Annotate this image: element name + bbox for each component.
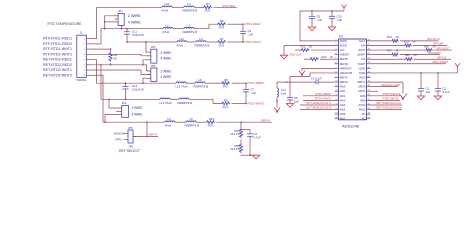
svg-text:47uH: 47uH [165, 124, 172, 128]
net label SPI-DOUT [437, 46, 451, 50]
net label RET-ANALOG-IN-P [371, 101, 403, 105]
svg-text:.1uF: .1uF [251, 91, 257, 95]
svg-text:7: 7 [84, 70, 86, 72]
wire row D RTD2-RED2 [97, 82, 247, 84]
svg-text:REF-P: REF-P [261, 118, 270, 122]
svg-text:R6: R6 [220, 19, 224, 23]
resistor R7 24.9 [217, 37, 226, 48]
svg-text:RET-ANALOG-IN-N: RET-ANALOG-IN-N [377, 106, 402, 110]
svg-text:ADC-CLK: ADC-CLK [290, 52, 302, 56]
svg-text:REF SELECT: REF SELECT [119, 149, 140, 153]
net label SPI-DRDY [428, 51, 441, 55]
svg-text:R14: R14 [387, 35, 392, 39]
svg-text:2K: 2K [396, 49, 399, 53]
svg-text:GPIO0: GPIO0 [358, 86, 366, 89]
resistor R6 24.9 [217, 19, 226, 30]
svg-text:FERRITE B: FERRITE B [195, 43, 210, 47]
op-amp U2 ADS1248 body [339, 35, 367, 129]
svg-text:2K: 2K [396, 35, 399, 39]
svg-text:2K: 2K [309, 45, 312, 49]
svg-text:AIN2: AIN2 [340, 95, 346, 98]
IC U2 pin stubs and pin names [335, 39, 371, 120]
net label RTD1-WHT2 at AIN2 [303, 97, 335, 101]
svg-text:REFP1: REFP1 [340, 77, 349, 80]
resistor R12 2K on CLK [295, 45, 335, 52]
svg-text:47uH: 47uH [163, 30, 170, 34]
wire J1 pin4 to JP2 pin2 [90, 54, 151, 55]
svg-text:xRESET: xRESET [340, 54, 350, 57]
svg-text:ANALOG: ANALOG [114, 132, 125, 136]
net label RTD2-RED2 at AIN8 [371, 92, 401, 96]
wire DVDD to VCC rail [300, 11, 335, 41]
svg-text:FERRITE B: FERRITE B [183, 9, 198, 13]
svg-text:NC: NC [362, 113, 366, 116]
svg-text:1uF: 1uF [294, 99, 299, 103]
wire J1 pin7 to JP3 pin2 [90, 70, 151, 74]
title RTD TEMPERATURE [48, 22, 83, 26]
ground REFN0 [299, 71, 305, 76]
svg-text:xDRDY: xDRDY [357, 54, 365, 57]
svg-text:DOUT: DOUT [359, 49, 366, 52]
svg-text:RTF-RTD1-WHT2: RTF-RTD1-WHT2 [43, 52, 72, 56]
power VCC arrow top [342, 5, 347, 11]
jumper JP4 2-wire/4-wire select [116, 101, 143, 117]
inductor L11 47uH [177, 37, 188, 48]
wire AVDD rail [371, 70, 458, 74]
jumper JP1 2-wire/4-wire select [114, 9, 142, 25]
resistor R14 2K on SCLK [371, 35, 439, 43]
svg-text:2 WIRE: 2 WIRE [161, 69, 173, 73]
svg-text:2K: 2K [330, 55, 333, 59]
svg-text:AIN3: AIN3 [340, 99, 346, 102]
svg-text:R13: R13 [322, 55, 327, 59]
svg-text:RTF-RTD1-WHT1: RTF-RTD1-WHT1 [43, 47, 72, 51]
net label RTD1-RED2 [245, 22, 262, 26]
svg-text:L3: L3 [188, 24, 192, 28]
svg-text:U2: U2 [339, 35, 343, 39]
net label RTF-RTD1-WHT1 [43, 47, 72, 51]
svg-text:VREFCOM: VREFCOM [340, 72, 353, 75]
net label ANALOG-GND [371, 83, 400, 87]
svg-text:SPI-DRDY: SPI-DRDY [428, 51, 441, 55]
svg-text:3: 3 [84, 49, 86, 51]
net label ADC-START [433, 60, 449, 64]
jumper JP2 2-wire/4-wire select [147, 45, 173, 63]
svg-text:47uH: 47uH [177, 43, 184, 47]
svg-text:REF-P: REF-P [149, 133, 158, 137]
svg-text:24.9: 24.9 [223, 85, 229, 89]
net label SPI-SCLK [427, 37, 440, 41]
resistor R9 24.9 [221, 98, 230, 109]
svg-text:AVSS: AVSS [359, 77, 366, 80]
ground ref divider [252, 155, 259, 159]
svg-text:24.9: 24.9 [205, 9, 211, 13]
capacitor C10 .1uF [329, 11, 342, 27]
svg-text:L5: L5 [200, 37, 204, 41]
resistor R10 24.9 [206, 117, 215, 128]
resistor R18 2K on xCS [371, 53, 452, 61]
svg-text:RTD1-WHT2: RTD1-WHT2 [315, 97, 332, 101]
svg-text:JP3: JP3 [151, 64, 156, 68]
ground L12 [274, 108, 280, 113]
svg-text:SPI-SCLK: SPI-SCLK [427, 37, 440, 41]
svg-text:DVDD: DVDD [340, 40, 347, 43]
wire J1 pin8 to row F [90, 75, 103, 122]
svg-text:START: START [358, 63, 366, 66]
svg-text:.1uF: .1uF [248, 33, 254, 37]
svg-text:0.1uF: 0.1uF [443, 90, 450, 94]
wire R5A to R5B [240, 140, 242, 144]
connector J1 TERMINAL [76, 30, 90, 81]
net label RET-RTD2-WHT2 [43, 73, 72, 77]
svg-text:RTD1-WHT2: RTD1-WHT2 [245, 40, 262, 44]
wire START [371, 63, 447, 65]
svg-text:1uH: 1uH [281, 92, 286, 96]
svg-text:RET-RTD2-RED1: RET-RTD2-RED1 [43, 58, 72, 62]
inductor L10 47uH [162, 2, 173, 12]
ferrite bead L3 [183, 24, 198, 34]
ground C1 [417, 96, 424, 100]
net label ADC-CLK [290, 52, 302, 56]
svg-text:R10: R10 [209, 117, 215, 121]
svg-text:R4: R4 [206, 2, 210, 6]
svg-text:24.3 1%: 24.3 1% [230, 133, 240, 136]
power VCC arrow right [455, 63, 460, 69]
svg-text:RTF-RTD1-RED1: RTF-RTD1-RED1 [43, 37, 72, 41]
capacitor C12 0.01uF-B [122, 82, 143, 100]
svg-text:REFP0: REFP0 [340, 58, 349, 61]
net label OUT-ANALOG-IN-P at AIN3 [300, 101, 335, 105]
ferrite bead L5 [195, 37, 210, 48]
resistor R5A 24.3 1% [230, 129, 242, 139]
wire REF divider riser [240, 121, 250, 129]
svg-text:TERMINAL: TERMINAL [76, 78, 87, 82]
svg-text:L2: L2 [166, 24, 170, 28]
svg-text:VREFOUT: VREFOUT [340, 67, 352, 70]
svg-text:RTF-RTD1-RED2: RTF-RTD1-RED2 [43, 42, 72, 46]
net label RTF-RTD1-RED2 [43, 42, 72, 46]
svg-text:J1: J1 [80, 30, 83, 34]
svg-text:AIN6: AIN6 [340, 113, 346, 116]
ground C10 [328, 27, 335, 31]
net label RTD2-WHT2 at AIN9 [371, 97, 401, 101]
inductor L14 47uH [160, 98, 172, 105]
svg-text:AIN10: AIN10 [359, 104, 366, 107]
svg-text:RET-RTD2-WHT1: RET-RTD2-WHT1 [43, 68, 72, 72]
ground C6 [286, 104, 293, 108]
ground DGND [280, 55, 287, 59]
svg-text:4: 4 [84, 54, 86, 56]
net label RTD2-WHT2 [248, 101, 265, 105]
net label RET-ANALOG-IN-N [371, 106, 403, 110]
svg-text:RTD2-RED2: RTD2-RED2 [383, 92, 399, 96]
net label RTD1-WHT2 [245, 40, 262, 44]
svg-text:RET-ANALOG-IN-P: RET-ANALOG-IN-P [377, 101, 402, 105]
svg-text:AIN9: AIN9 [360, 99, 366, 102]
net label RTD1-RED1 [223, 4, 236, 8]
wire DGND to ground [284, 45, 335, 55]
svg-text:4 WIRE: 4 WIRE [128, 20, 142, 24]
svg-text:24.9: 24.9 [219, 43, 225, 47]
ferrite bead L9 [185, 117, 200, 128]
inductor L8 47uH [165, 117, 176, 128]
svg-text:AIN11: AIN11 [359, 109, 366, 112]
resistor R16 2K on DOUT [371, 45, 453, 52]
wire J1 pin5 to row D [90, 60, 97, 84]
net label REF-P [261, 118, 270, 122]
net label RTD1-RED2 at AIN1 [303, 92, 335, 96]
svg-text:REFN1: REFN1 [340, 81, 349, 84]
svg-text:SPI-DOUT: SPI-DOUT [437, 46, 451, 50]
svg-text:47uH: 47uH [162, 9, 169, 13]
svg-text:R17: R17 [387, 49, 392, 53]
wire row A RTD1-RED1 [97, 6, 238, 8]
svg-text:L10: L10 [165, 2, 170, 6]
svg-text:CLKIO: CLKIO [358, 67, 365, 70]
net label SPI-DIN [433, 42, 443, 46]
svg-text:R8: R8 [224, 78, 228, 82]
svg-text:0.01uF-B: 0.01uF-B [132, 33, 144, 37]
svg-text:GPIO1: GPIO1 [358, 90, 366, 93]
inductor L13 47uH [176, 82, 188, 89]
svg-text:ADS1248: ADS1248 [342, 125, 359, 129]
ground C8 [308, 27, 315, 31]
svg-text:AIN0: AIN0 [340, 86, 346, 89]
svg-text:RET-RTD2-RED2: RET-RTD2-RED2 [43, 63, 72, 67]
ground C2 [434, 96, 441, 100]
net label RTF-RTD1-RED1 [43, 37, 72, 41]
wire row F REF-P [103, 121, 272, 123]
wire row B RTD1-RED2 [101, 24, 243, 29]
svg-text:24.9: 24.9 [208, 124, 214, 128]
wire JP4 pin3 to row F [104, 114, 116, 123]
svg-text:JP4: JP4 [122, 101, 127, 105]
inductor L2 47uH [163, 24, 174, 34]
inductor L12 1uH vertical [276, 88, 286, 108]
net label RTD2-RED2 [248, 81, 265, 85]
svg-text:2K: 2K [413, 40, 416, 44]
resistor R8 24.9 [221, 78, 230, 89]
svg-text:RTD TEMPERATURE: RTD TEMPERATURE [48, 22, 83, 26]
svg-text:FERRITE B: FERRITE B [178, 101, 193, 105]
ground AVSS [399, 94, 407, 100]
capacitor C8 .1uF [309, 11, 322, 27]
svg-text:2K: 2K [433, 45, 436, 49]
svg-text:JP1: JP1 [118, 9, 123, 13]
svg-text:6: 6 [84, 65, 86, 67]
svg-text:R18: R18 [405, 53, 410, 57]
resistor R17 2K on xDRDY [371, 49, 441, 57]
svg-text:JP5: JP5 [128, 126, 133, 130]
wire row E RTD2-WHT2 [101, 99, 246, 103]
svg-text:L13 47uH: L13 47uH [176, 85, 188, 89]
svg-text:ANALOG-GND: ANALOG-GND [381, 83, 400, 87]
svg-text:RTD1-RED2: RTD1-RED2 [315, 92, 331, 96]
svg-text:SCLK: SCLK [359, 40, 366, 43]
svg-text:DGND: DGND [340, 44, 348, 47]
svg-text:FERRITE B: FERRITE B [185, 124, 200, 128]
ferrite bead L6 [194, 78, 209, 89]
svg-text:RTD: RTD [116, 138, 123, 142]
svg-text:RTD2-RED2: RTD2-RED2 [248, 81, 265, 85]
ferrite bead L7 [178, 98, 193, 105]
capacitor C2 0.1uF [435, 73, 450, 96]
net label RET-RTD2-WHT1 [43, 68, 72, 72]
svg-text:1: 1 [84, 39, 86, 41]
svg-text:ADC-START: ADC-START [433, 60, 449, 64]
svg-text:L6: L6 [199, 78, 203, 82]
svg-text:RTD2-WHT2: RTD2-WHT2 [383, 97, 400, 101]
wire JP3 pin3 to row D [142, 78, 146, 84]
svg-text:C3 0.1uF: C3 0.1uF [311, 76, 322, 80]
wire J1 pin2 to row B [90, 29, 101, 44]
svg-text:AIN4: AIN4 [340, 104, 346, 107]
svg-text:4 WIRE: 4 WIRE [161, 75, 173, 79]
net label RTF-RTD1-WHT2 [43, 52, 72, 56]
wire R5B to ground [241, 154, 256, 156]
svg-text:L9: L9 [190, 117, 194, 121]
wire REF-P from row F to JP5 [133, 121, 158, 137]
jumper JP3 2-wire/4-wire select [147, 64, 173, 82]
svg-text:1K: 1K [114, 57, 118, 61]
net label OUT-ANALOG-IN-N at AIN4 [300, 106, 335, 110]
svg-text:R7: R7 [220, 37, 224, 41]
svg-text:RTD2-WHT2: RTD2-WHT2 [248, 101, 265, 105]
wire AVSS to ground [371, 82, 404, 93]
wire JP2 pin1 to row C [145, 41, 147, 52]
svg-text:24.9: 24.9 [223, 105, 229, 109]
svg-text:DRDY2: DRDY2 [357, 81, 366, 84]
svg-text:10.5 1%: 10.5 1% [230, 148, 240, 151]
net label SPI-CS [437, 55, 446, 59]
svg-text:AVDD: AVDD [359, 72, 366, 75]
wire JP1 pins to row B riser [104, 16, 114, 30]
svg-text:2 WIRE: 2 WIRE [128, 14, 142, 18]
net label RET-RTD2-RED1 [43, 58, 72, 62]
svg-text:.1uF: .1uF [317, 18, 323, 22]
label C4 4.7uF [254, 132, 261, 140]
wire REFN0 to ground [302, 68, 335, 70]
svg-text:L8: L8 [168, 117, 172, 121]
svg-text:4 WIRE: 4 WIRE [161, 57, 173, 61]
ferrite bead L4 [183, 2, 198, 12]
svg-text:FERRITE B: FERRITE B [183, 30, 198, 34]
capacitor C3 0.1uF on REFP1 [277, 76, 335, 88]
svg-text:AIN7: AIN7 [340, 118, 346, 121]
svg-text:RET-RTD2-WHT2: RET-RTD2-WHT2 [43, 73, 72, 77]
svg-text:.1uF: .1uF [337, 18, 343, 22]
jumper JP5 REF SELECT [114, 126, 140, 153]
resistor R15 2K on DIN [371, 40, 448, 47]
svg-text:R15: R15 [404, 40, 409, 44]
svg-text:JP2: JP2 [151, 45, 156, 49]
capacitor C7 .1uF [243, 82, 256, 104]
svg-text:xCS: xCS [361, 58, 366, 61]
svg-text:L14 47uH: L14 47uH [160, 101, 172, 105]
svg-text:NC: NC [362, 118, 366, 121]
svg-text:2 WIRE: 2 WIRE [132, 106, 144, 110]
svg-text:R16: R16 [424, 45, 429, 49]
wire VREFOUT elbow [290, 73, 335, 77]
svg-text:4 WIRE: 4 WIRE [132, 113, 144, 117]
capacitor C11 0.01uF-B [124, 28, 144, 43]
svg-text:CLK: CLK [340, 49, 345, 52]
net label REF-P at JP5 [149, 133, 158, 137]
wire JP4 pin1 to row E [108, 98, 116, 108]
svg-text:5: 5 [84, 59, 86, 61]
net label RET-RTD2-RED2 [43, 63, 72, 67]
capacitor C6 1uF [287, 77, 299, 104]
resistor R5B 10.5 1% [230, 144, 242, 154]
wire J1 pin3 to R3 top [90, 48, 111, 50]
wire JP2 pin3 to pin6 bus [143, 60, 147, 65]
svg-text:R9: R9 [224, 98, 228, 102]
svg-text:1uF: 1uF [426, 90, 431, 94]
svg-text:R12: R12 [301, 45, 306, 49]
resistor R13 2K on xRESET [304, 55, 335, 61]
svg-text:L11: L11 [180, 37, 185, 41]
wire VCC rail top [300, 10, 344, 12]
wire J1 pin1 to row A [90, 7, 97, 38]
capacitor C4 4.7uF [247, 130, 253, 156]
resistor R3 1K [109, 48, 118, 65]
svg-text:RTD1-RED1: RTD1-RED1 [223, 4, 236, 8]
svg-text:2K: 2K [414, 53, 417, 57]
svg-text:2 WIRE: 2 WIRE [161, 51, 173, 55]
svg-text:RTD1-RED2: RTD1-RED2 [245, 22, 262, 26]
svg-text:DIN: DIN [361, 44, 365, 47]
svg-text:L4: L4 [188, 2, 192, 6]
svg-text:4.7uF: 4.7uF [254, 135, 261, 139]
svg-text:2: 2 [84, 44, 86, 46]
capacitor C1 1uF [418, 73, 431, 96]
resistor R4 24.9 [203, 2, 212, 12]
svg-text:SPI-CS: SPI-CS [437, 55, 446, 59]
wire JP1 bottom stub to row B [121, 26, 123, 30]
wire J1 pin6 bus to JP2 pin3 / JP3 pin1 / row E riser [90, 64, 151, 99]
svg-text:AIN1: AIN1 [340, 90, 346, 93]
wire row C RTD1-WHT2 [127, 41, 243, 43]
svg-text:AIN8: AIN8 [360, 95, 366, 98]
svg-text:24.9: 24.9 [219, 25, 225, 29]
wire GPIO1 stub [371, 90, 379, 92]
svg-text:OUT-ANALOG-IN-N: OUT-ANALOG-IN-N [306, 106, 331, 110]
svg-text:FERRITE B: FERRITE B [194, 85, 209, 89]
svg-text:REFN0: REFN0 [340, 63, 349, 66]
svg-text:OUT-ANALOG-IN-P: OUT-ANALOG-IN-P [306, 101, 331, 105]
svg-text:AIN5: AIN5 [340, 109, 346, 112]
capacitor C5 .1uF [240, 23, 253, 43]
svg-text:0.01uF-B: 0.01uF-B [132, 88, 144, 92]
